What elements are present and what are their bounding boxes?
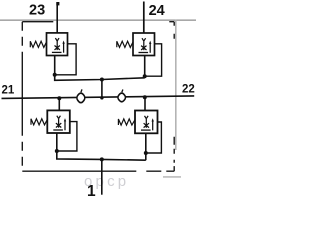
wire middle line 21-22: [2, 96, 195, 99]
junction dot upper tee: [100, 78, 104, 82]
wire BR valve inlet: [144, 97, 146, 110]
junction dot TL pilot: [53, 73, 57, 77]
wire BL pilot loop: [57, 122, 77, 151]
wire TR valve outlet: [144, 56, 146, 78]
enclosure dashed border bottom: [22, 170, 174, 172]
port 1 line: [101, 159, 103, 194]
check diamond D1 on middle line: [76, 89, 86, 104]
relief valve V2 (top-right): [133, 33, 155, 56]
wire TR pilot loop: [145, 44, 162, 76]
enclosure dashed border top: [22, 21, 174, 23]
spring of V1: [30, 41, 46, 47]
svg-text:21: 21: [2, 85, 15, 97]
gray table rule vertical: [175, 20, 177, 151]
relief valve V3 (bottom-left): [47, 110, 70, 133]
relief valve V1 (top-left): [47, 33, 68, 56]
wire BR pilot loop: [146, 122, 162, 153]
spring of V4: [118, 119, 135, 125]
wire BL valve outlet: [57, 133, 146, 160]
port 23 line: [56, 3, 58, 34]
junction dot middle BR tee: [143, 95, 147, 99]
wire BL valve inlet: [58, 98, 60, 110]
port 23 end dot: [56, 2, 59, 5]
gray table rule horizontal: [0, 19, 196, 21]
wire BR valve outlet: [145, 133, 147, 160]
svg-text:1: 1: [87, 183, 96, 200]
svg-text:23: 23: [29, 2, 45, 18]
junction dot BR pilot: [144, 151, 148, 155]
relief valve V4 (bottom-right): [135, 111, 158, 134]
wire TL pilot loop: [55, 44, 76, 75]
port 24 line: [143, 2, 145, 34]
junction dot middle tee up: [100, 96, 103, 99]
wire TL valve outlet: [55, 56, 145, 81]
junction dot bottom tee: [100, 157, 104, 161]
enclosure dashed border right: [173, 22, 175, 172]
junction dot BL pilot: [55, 149, 59, 153]
spring of V2: [117, 41, 133, 47]
gray table rule bottom-right stub: [163, 176, 181, 178]
junction dot middle BL tee: [57, 96, 61, 100]
wire tee upper line to middle line: [101, 80, 103, 98]
check diamond D2 on middle line: [117, 90, 127, 104]
svg-text:24: 24: [149, 3, 165, 19]
junction dot TR pilot: [143, 74, 147, 78]
spring of V3: [31, 119, 47, 125]
svg-text:22: 22: [182, 84, 195, 96]
enclosure dashed border left: [21, 22, 23, 172]
